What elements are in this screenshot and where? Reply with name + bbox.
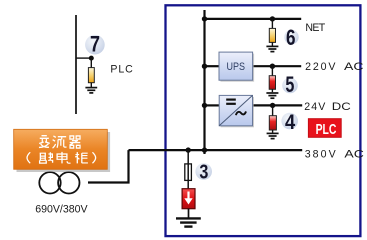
label: 690V/380V <box>35 204 88 216</box>
ground (arrester 4) <box>267 133 279 138</box>
ground (main, below arrester) <box>176 218 201 226</box>
wire: arrester to main ground <box>188 209 190 218</box>
svg-text:24V: 24V <box>304 101 326 113</box>
wire: 380V AC line <box>129 149 303 151</box>
DC/AC converter U2 box <box>219 95 252 125</box>
PLC box (red) <box>308 119 341 138</box>
wire: stub to arrester 7 <box>90 58 92 68</box>
wire: 24V line converter to label <box>253 104 303 106</box>
label: 7 <box>90 31 100 56</box>
label: 4 <box>285 109 295 134</box>
node: bus/24V junction <box>202 103 207 108</box>
wire: 220V line bus to UPS <box>205 65 220 67</box>
svg-text:7: 7 <box>90 31 100 56</box>
svg-text:690V/380V: 690V/380V <box>35 204 88 216</box>
svg-text:PLC: PLC <box>316 122 337 138</box>
node: 220V/arrester junction <box>270 63 275 68</box>
DC/AC converter U2 shadow <box>221 97 254 127</box>
svg-text:NET: NET <box>305 22 325 34</box>
ground (arrester 5) <box>266 93 278 98</box>
converter cabinet callout box (orange) shadow <box>17 132 111 172</box>
callout ball 3 <box>195 163 212 180</box>
UPS U1 box <box>219 52 253 80</box>
enclosure box (blue frame) <box>166 5 361 236</box>
node: fuse junction on 380V line <box>186 147 191 152</box>
svg-text:380V: 380V <box>305 148 337 160</box>
svg-text:6: 6 <box>286 25 296 50</box>
wire: transformer to 380V riser <box>88 150 129 182</box>
callout ball 7 <box>85 35 105 55</box>
node: bus/NET junction <box>202 16 207 21</box>
wire: branch to arrester 7 <box>76 57 91 59</box>
svg-text:220V: 220V <box>305 61 336 73</box>
label: 6 <box>286 25 296 50</box>
label: 380V AC <box>305 148 365 160</box>
svg-text:UPS: UPS <box>227 61 246 73</box>
label: 24V DC <box>304 101 351 113</box>
label: 3 <box>199 161 208 184</box>
label: 5 <box>285 72 294 97</box>
wire: arrester 4 to ground <box>272 130 274 133</box>
label: PLC (left) <box>110 64 133 76</box>
surge arrester 5 body <box>269 76 275 90</box>
wire: stub to arrester 5 <box>271 66 273 76</box>
svg-text:PLC: PLC <box>110 64 133 76</box>
svg-text:DC: DC <box>332 101 351 113</box>
surge arrester 7 body <box>88 68 94 83</box>
wire: arrester 6 to ground <box>271 42 273 46</box>
wire: arrester 5 to ground <box>271 89 273 92</box>
svg-text:5: 5 <box>285 72 294 97</box>
wire: stub to arrester 6 <box>271 19 273 29</box>
transformer T1 (690V/380V) <box>39 172 79 193</box>
fuse 3 body <box>185 164 192 181</box>
label: （配电柜） (hand-drawn strokes) <box>27 152 96 163</box>
UPS U1 shadow <box>221 54 255 82</box>
label: NET <box>305 22 325 34</box>
wire: stub to arrester 4 <box>272 105 274 115</box>
node: NET/arrester junction <box>270 16 275 21</box>
callout ball 6 <box>284 30 298 44</box>
wire: 220V line UPS to label <box>253 65 302 67</box>
node: 24V/arrester junction <box>270 103 275 108</box>
svg-text:AC: AC <box>344 148 364 160</box>
wire: arrester 7 to ground <box>90 83 92 87</box>
wire: NET line <box>205 18 302 20</box>
wire: 24V line bus to converter <box>205 104 220 106</box>
surge arrester F7 wire: PLC feeder vertical <box>75 15 77 114</box>
node: branch junction <box>89 56 94 61</box>
node: bus/220V junction <box>202 63 207 68</box>
ground (arrester 6) <box>266 46 278 51</box>
surge arrester 4 body <box>269 116 276 130</box>
callout ball 4 <box>281 113 298 130</box>
node: bus/380V junction <box>202 147 207 152</box>
wire: main DC bus vertical <box>203 10 205 154</box>
svg-text:4: 4 <box>285 109 295 134</box>
svg-text:3: 3 <box>199 161 208 184</box>
surge arrester 6 body <box>269 28 275 42</box>
surge arrester (below fuse 3) body <box>182 189 195 209</box>
callout ball 5 <box>282 78 298 94</box>
label: 变流器 (hand-drawn strokes) <box>39 136 80 148</box>
label: 220V AC <box>305 61 364 73</box>
wire: 380V to fuse 3 <box>187 150 189 190</box>
converter cabinet callout box (orange) <box>14 129 108 169</box>
svg-text:AC: AC <box>344 61 364 73</box>
ground (arrester 7) <box>85 88 97 93</box>
